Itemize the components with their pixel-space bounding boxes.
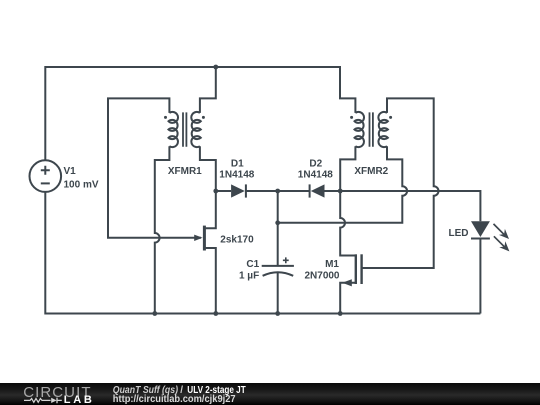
diode D1 1N4148	[219, 158, 254, 197]
LED anode triangle	[471, 221, 490, 237]
LED	[449, 221, 510, 251]
LED cathode bar	[471, 238, 490, 240]
transistor Q1 2sk170 JFET	[194, 191, 254, 314]
wire C1 node vertical	[277, 191, 279, 266]
D2 cathode bar	[309, 184, 311, 197]
node JFET drain / D1 anode	[213, 189, 218, 194]
logo diode	[51, 398, 56, 403]
svg-text:2N7000: 2N7000	[304, 270, 339, 281]
Q1 channel bar	[203, 226, 206, 251]
svg-text:1N4148: 1N4148	[298, 169, 333, 180]
D1 anode triangle	[231, 184, 245, 197]
transformer XFMR1	[164, 112, 205, 177]
M1 source lead to ground rail	[340, 283, 356, 314]
light arrow 1	[494, 224, 504, 234]
M1 gate bar	[360, 254, 362, 284]
Q1 gate arrowhead	[194, 235, 202, 241]
logo resistor squiggle	[24, 399, 51, 403]
wire D1 anode lead	[216, 190, 231, 192]
phasing dots	[350, 116, 353, 119]
wire XFMR1 top-right to top rail	[200, 67, 216, 113]
transformer XFMR2	[350, 112, 392, 177]
svg-text:LAB: LAB	[64, 394, 92, 405]
svg-text:M1: M1	[325, 259, 339, 270]
wire LED cathode down to ground rail	[479, 239, 481, 314]
wire C1 node to D2 cathode	[278, 190, 310, 192]
V1 minus sign	[41, 182, 50, 184]
core	[370, 112, 373, 146]
wire XFMR2 bottom-left to M1 drain (hops over C1 wire)	[340, 146, 356, 255]
svg-text:2sk170: 2sk170	[220, 234, 254, 245]
svg-text:1N4148: 1N4148	[219, 169, 254, 180]
wire XFMR1 top-left to JFET gate (feedback)	[108, 98, 201, 237]
phasing dots	[164, 116, 167, 119]
svg-text:100 mV: 100 mV	[64, 179, 99, 190]
node D2 / XFMR2 bottom-left / LED branch	[338, 189, 343, 194]
svg-text:1 µF: 1 µF	[239, 270, 259, 281]
C1 curved bottom plate	[263, 272, 294, 276]
wire diode row to LED (passes under hops)	[340, 191, 480, 221]
M1 source arrowhead	[342, 279, 352, 286]
wire XFMR2 bottom-right to C1 top node (hops over diode row)	[278, 146, 407, 223]
Q1 drain lead	[206, 191, 216, 228]
footer bar	[0, 383, 540, 405]
wire XFMR1 bottom-right down to diode row	[200, 146, 216, 191]
node ground rail junctions	[152, 311, 157, 316]
transistor M1 2N7000	[304, 254, 361, 313]
wire ground rail	[45, 192, 480, 314]
Q1 source lead to ground rail	[206, 248, 216, 314]
wire C1 bottom to ground rail	[277, 272, 279, 314]
svg-text:XFMR1: XFMR1	[168, 166, 202, 177]
C1 top plate	[262, 265, 294, 267]
svg-text:C1: C1	[246, 259, 259, 270]
D2 anode triangle	[311, 184, 325, 197]
svg-text:D1: D1	[231, 158, 244, 169]
core	[183, 112, 186, 146]
svg-text:XFMR2: XFMR2	[354, 166, 388, 177]
svg-text:LED: LED	[449, 228, 469, 239]
D1 cathode bar	[245, 184, 247, 197]
M1 channel bar	[355, 254, 357, 284]
winding left	[169, 112, 179, 147]
wire top rail from V1 to XFMR2 left winding	[45, 67, 355, 160]
wire XFMR2 top-right to M1 gate (hops over diode row)	[362, 98, 439, 268]
V1 plus sign	[41, 166, 50, 175]
winding right	[191, 112, 201, 147]
svg-text:http://circuitlab.com/cjk9j27: http://circuitlab.com/cjk9j27	[113, 395, 236, 405]
voltage source V1	[30, 160, 99, 192]
svg-text:D2: D2	[309, 158, 322, 169]
node top rail junction	[213, 65, 218, 70]
C1 polarity plus mark	[283, 257, 289, 263]
node C1 top / XFMR2 wire	[275, 220, 280, 225]
wire D2 anode to XFMR2 node	[325, 190, 341, 192]
svg-text:V1: V1	[64, 166, 77, 177]
winding right	[378, 112, 388, 147]
wire XFMR1 bottom-left to ground rail (hops over gate wire)	[155, 146, 170, 313]
winding left	[355, 112, 365, 147]
wire D1 cathode to C1 node	[246, 190, 278, 192]
capacitor C1 1uF	[239, 257, 294, 281]
diode D2 1N4148	[298, 158, 333, 197]
V1 body circle	[30, 160, 62, 192]
light arrow 2	[494, 236, 504, 246]
node D1/D2/C1	[275, 189, 280, 194]
